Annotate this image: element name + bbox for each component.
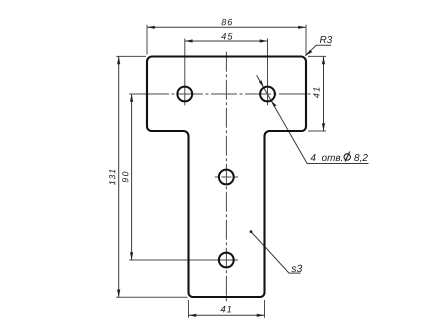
extension line 45 left through hole: [184, 39, 186, 106]
arrow 90 top: [130, 94, 133, 102]
dimension line 41 bottom: [189, 314, 265, 316]
extension line 45 right through hole: [267, 39, 269, 106]
hole top-left: [177, 87, 192, 102]
arrow diameter leader lower: [271, 101, 276, 107]
centerline mark bottom hole + 90 extension: [129, 259, 238, 261]
label 41 right (rotated): [313, 88, 319, 98]
arrow 45 left: [185, 39, 193, 42]
extension line 41-bottom left: [188, 300, 190, 318]
extension line 41-right top: [308, 55, 326, 57]
centerline mark middle hole: [215, 176, 238, 178]
label 86: [222, 19, 233, 25]
label s3: [291, 265, 302, 272]
label 8,2: [354, 154, 367, 162]
arrow 41-right bottom: [322, 123, 325, 131]
dimension line 45: [185, 40, 268, 42]
dot s3 leader: [250, 230, 253, 233]
plate outline: [147, 57, 306, 298]
dimension line 41 right: [323, 56, 325, 131]
diameter symbol: [344, 152, 350, 162]
dimension line 86: [147, 26, 306, 28]
label 4 otv (hole count): [310, 154, 342, 161]
centerline horizontal through top holes: [143, 93, 313, 95]
extension line 131 top: [116, 55, 146, 57]
arrow 41-right top: [322, 56, 325, 64]
label 90 (rotated): [122, 172, 128, 183]
arrow R3 leader: [305, 50, 312, 56]
hole top-right: [260, 87, 275, 102]
arrow 86 left: [147, 26, 155, 29]
leader hole diameter callout: [257, 75, 369, 163]
extension line 86 right: [305, 25, 307, 55]
label 131 (rotated): [109, 170, 115, 185]
extension line 90 top: [129, 93, 147, 95]
arrow 131 bottom: [117, 290, 120, 298]
extension line 41-bottom right: [264, 300, 266, 318]
label 45: [221, 33, 232, 39]
hole bottom: [219, 253, 234, 268]
hole middle: [219, 170, 234, 185]
label 41 bottom: [221, 306, 232, 312]
centerline vertical axis: [225, 52, 227, 302]
leader s3: [251, 232, 300, 274]
arrow 90 bottom: [130, 252, 133, 260]
leader R3: [305, 45, 331, 56]
arrow diameter leader upper: [259, 80, 264, 88]
extension line 86 left: [146, 25, 148, 55]
arrow 131 top: [117, 56, 120, 64]
arrow 45 right: [260, 39, 268, 42]
label R3: [320, 36, 332, 43]
arrow 41-bottom left: [189, 314, 197, 317]
extension line 41-right bottom: [308, 130, 326, 132]
dimension line 131: [118, 56, 120, 297]
arrow 86 right: [298, 26, 306, 29]
arrow 41-bottom right: [257, 314, 265, 317]
dimension line 90: [131, 94, 133, 260]
extension line 131 bottom: [116, 296, 187, 298]
